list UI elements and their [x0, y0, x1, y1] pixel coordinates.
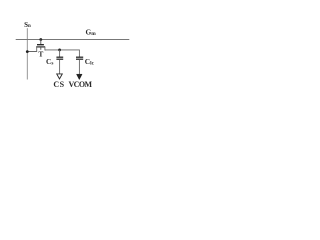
capacitor Clc: top plate [76, 56, 83, 58]
background [0, 0, 148, 120]
wire: gate line Gm horizontal [16, 39, 130, 41]
capacitor Cs: top plate [56, 56, 63, 58]
transistor T: source leg (left) [27, 47, 36, 52]
capacitor Clc: bottom plate [76, 58, 83, 60]
terminal: VCOM electrode (filled triangle) [77, 74, 83, 79]
node: Cs branch junction dot [58, 49, 61, 52]
node: source-to-Sn junction dot [26, 50, 29, 53]
wire: pixel node corner down to Clc [78, 50, 80, 58]
transistor T: drain leg (right) [45, 47, 46, 50]
transistor T: channel bar [36, 46, 45, 48]
wire: Cs top stem [59, 50, 61, 57]
wire: Clc bottom stem [78, 59, 80, 74]
wire: Cs bottom stem [59, 59, 61, 75]
terminal: CS electrode (hollow triangle) [57, 74, 63, 79]
transistor T: gate bar [37, 44, 44, 46]
node: gate connection dot on Gm [39, 38, 42, 41]
svg-text:T: T [38, 50, 43, 59]
svg-text:VCOM: VCOM [69, 80, 93, 89]
capacitor Cs: bottom plate [56, 58, 63, 60]
wire: data line Sn vertical [26, 28, 28, 79]
wire: pixel node horizontal [45, 49, 80, 51]
wire: gate stub down from Gm [40, 40, 42, 45]
transistor T: middle stub [40, 47, 42, 50]
svg-text:CS: CS [53, 80, 64, 89]
